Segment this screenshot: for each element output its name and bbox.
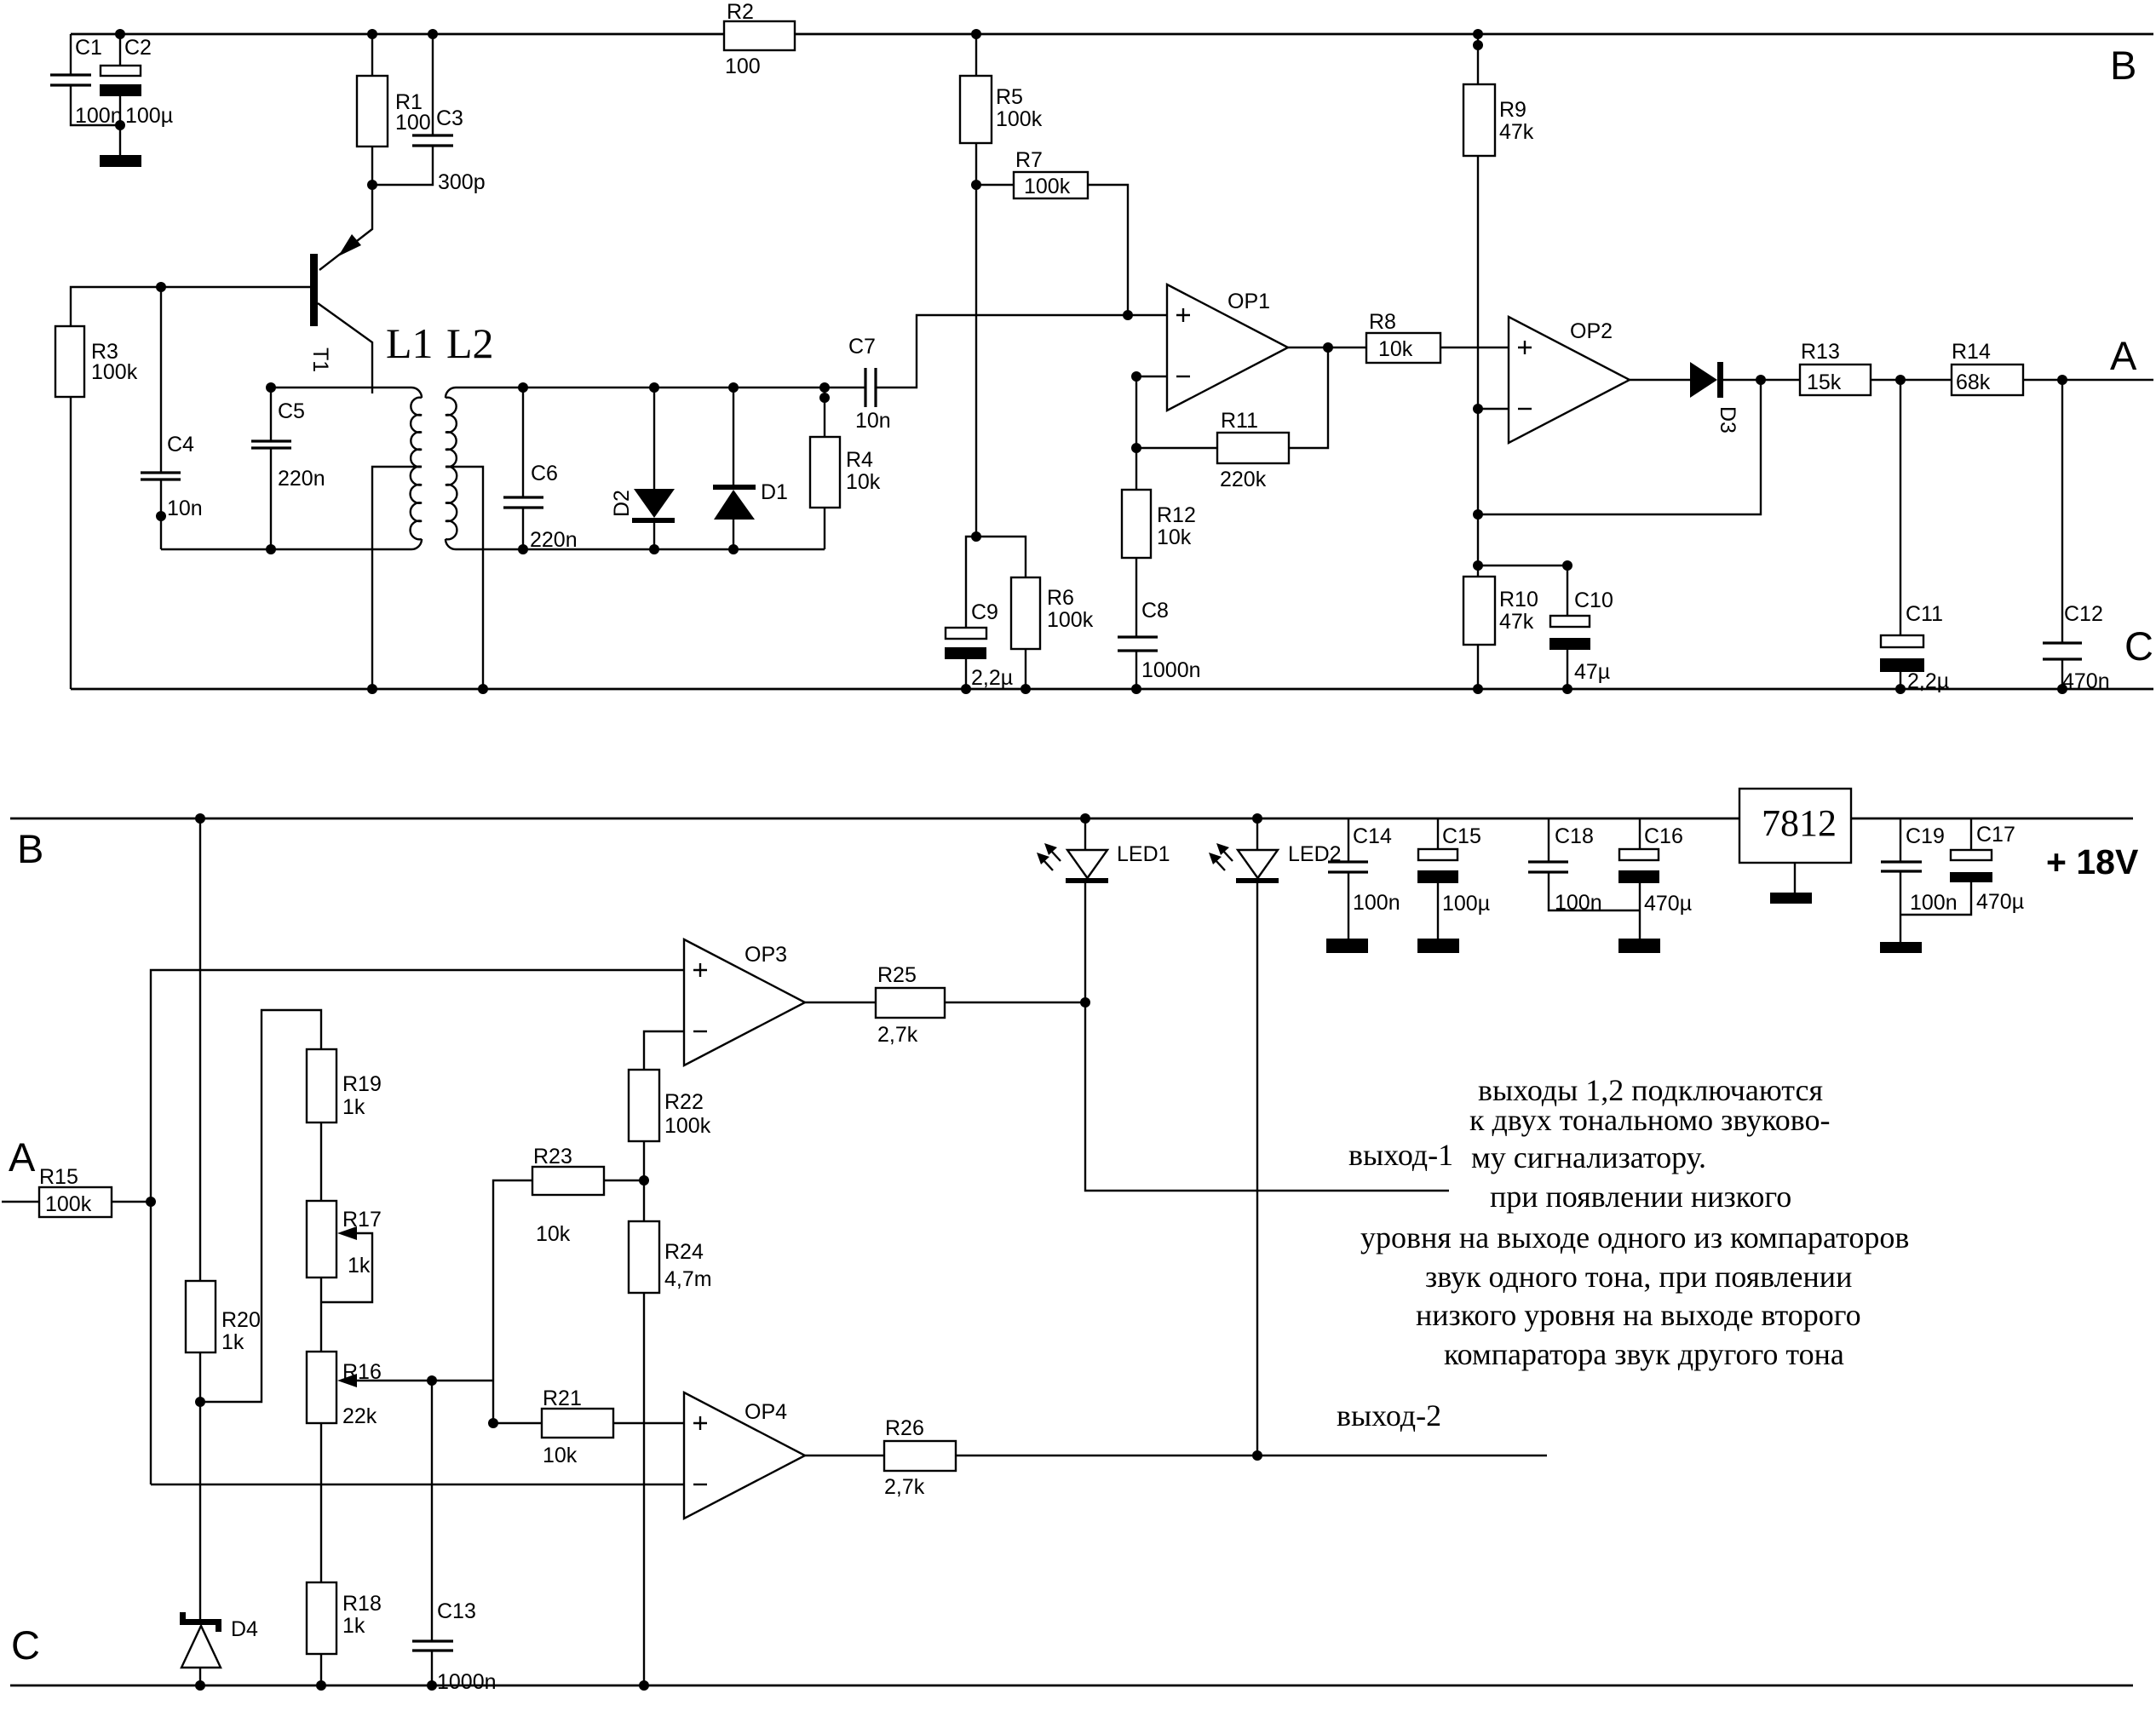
svg-text:A: A	[2110, 333, 2137, 378]
node: R5/R7 junction	[971, 180, 981, 190]
node: C11 junction	[1895, 375, 1906, 385]
wire: top supply rail B	[71, 33, 2153, 36]
svg-text:2,7k: 2,7k	[877, 1023, 918, 1047]
svg-text:10n: 10n	[167, 497, 203, 520]
svg-text:D1: D1	[761, 480, 788, 504]
capacitor C4	[141, 287, 203, 549]
capacitor C11 (electrolytic)	[1880, 380, 1949, 694]
wire: OP2 minus input	[1473, 404, 1509, 566]
svg-text:100k: 100k	[45, 1192, 92, 1216]
wire: base wire to R3	[71, 287, 310, 326]
svg-text:100n: 100n	[1555, 891, 1602, 915]
op-amp OP4	[684, 1392, 805, 1519]
svg-text:68k: 68k	[1956, 370, 1991, 394]
svg-text:R5: R5	[996, 85, 1023, 109]
svg-text:7812: 7812	[1762, 802, 1837, 844]
svg-text:низкого уровня на выходе второ: низкого уровня на выходе второго	[1416, 1298, 1861, 1332]
svg-text:R24: R24	[664, 1240, 704, 1264]
resistor R19	[307, 1049, 382, 1201]
node: R7 / +input junction	[1123, 310, 1133, 320]
svg-text:D3: D3	[1716, 406, 1739, 433]
svg-text:A: A	[9, 1134, 36, 1180]
resistor R20	[186, 818, 261, 1407]
svg-text:10k: 10k	[543, 1444, 578, 1467]
resistor R8	[1366, 310, 1509, 363]
svg-text:C2: C2	[124, 36, 152, 60]
resistor R21	[488, 1387, 684, 1467]
svg-text:R11: R11	[1221, 409, 1258, 433]
svg-text:22k: 22k	[342, 1404, 377, 1428]
wire: OP1 output	[1288, 342, 1366, 448]
resistor R3	[55, 326, 138, 689]
node: R25/LED1 junction	[1080, 997, 1090, 1008]
svg-text:R8: R8	[1369, 310, 1396, 334]
svg-text:100k: 100k	[1047, 608, 1094, 632]
svg-text:R22: R22	[664, 1090, 704, 1114]
svg-text:1k: 1k	[348, 1254, 371, 1278]
resistor R1	[357, 29, 431, 185]
svg-text:выходы 1,2 подключаются: выходы 1,2 подключаются	[1478, 1073, 1823, 1107]
svg-text:B: B	[17, 826, 43, 871]
op-amp OP3	[684, 939, 805, 1065]
svg-text:R18: R18	[342, 1592, 382, 1616]
potentiometer R16	[307, 1352, 493, 1582]
resistor R18	[307, 1582, 382, 1691]
svg-text:100k: 100k	[1024, 175, 1071, 198]
capacitor C19	[1880, 818, 1958, 953]
svg-text:47µ: 47µ	[1574, 660, 1610, 684]
svg-text:100k: 100k	[996, 107, 1043, 131]
diode D3	[1690, 362, 1800, 433]
svg-text:C14: C14	[1353, 824, 1392, 848]
resistor R14	[1952, 340, 2153, 395]
resistor R13	[1800, 340, 1952, 395]
svg-text:R20: R20	[221, 1308, 261, 1332]
capacitor C1	[50, 36, 123, 128]
svg-text:220k: 220k	[1220, 468, 1267, 491]
resistor R7	[976, 148, 1128, 315]
ground below C2	[100, 125, 141, 167]
svg-text:C11: C11	[1906, 602, 1943, 626]
svg-text:C6: C6	[531, 462, 558, 485]
output-2 label	[1337, 1398, 1441, 1433]
svg-text:1000n: 1000n	[1141, 658, 1201, 682]
svg-text:C1: C1	[75, 36, 102, 60]
capacitor C2 (electrolytic)	[100, 29, 173, 130]
svg-text:1000n: 1000n	[437, 1670, 497, 1694]
svg-text:R6: R6	[1047, 586, 1074, 610]
svg-text:100: 100	[395, 111, 431, 135]
annotation text block	[1360, 1073, 1909, 1371]
node: LED2/output-2 junction	[1252, 1450, 1262, 1461]
svg-text:C16: C16	[1644, 824, 1683, 848]
svg-text:C17: C17	[1976, 823, 2015, 847]
inductor L1 (primary winding with centre tap)	[386, 319, 434, 549]
svg-text:300p: 300p	[438, 170, 486, 194]
svg-text:R4: R4	[846, 448, 873, 472]
capacitor C14	[1326, 818, 1400, 953]
zener diode D4	[180, 1402, 258, 1691]
svg-text:C: C	[11, 1622, 40, 1668]
svg-text:+ 18V: + 18V	[2046, 842, 2139, 881]
resistor R11	[1131, 409, 1289, 491]
svg-text:R2: R2	[727, 0, 754, 24]
resistor R25	[805, 963, 1085, 1047]
svg-text:выход-2: выход-2	[1337, 1398, 1441, 1433]
svg-text:R10: R10	[1499, 588, 1538, 611]
wire: LED1 to output-1	[1085, 1002, 1449, 1191]
capacitor C5	[251, 382, 325, 554]
svg-text:R9: R9	[1499, 98, 1526, 122]
svg-text:100k: 100k	[664, 1114, 711, 1138]
wire: R20 bottom link to R19 chain	[200, 1010, 321, 1402]
node A label (left)	[9, 1134, 36, 1180]
svg-text:R12: R12	[1157, 503, 1196, 527]
LED2	[1209, 813, 1342, 1455]
node: R1/C3 junction	[367, 180, 377, 190]
svg-text:10n: 10n	[855, 409, 891, 433]
wire: tank bottom left segment	[161, 548, 411, 550]
diode D1 (reversed)	[713, 382, 788, 554]
wire: left drop from rail to C1	[70, 34, 72, 75]
svg-text:1k: 1k	[342, 1095, 365, 1119]
svg-text:100n: 100n	[1910, 891, 1958, 915]
svg-text:R21: R21	[543, 1387, 582, 1410]
resistor R5	[960, 29, 1043, 537]
svg-text:компаратора звук другого тона: компаратора звук другого тона	[1444, 1337, 1844, 1371]
svg-text:1k: 1k	[342, 1614, 365, 1638]
wire: L1 centre tap to bottom rail	[367, 467, 422, 694]
svg-text:C3: C3	[436, 106, 463, 130]
svg-text:10k: 10k	[536, 1222, 571, 1246]
svg-text:220n: 220n	[530, 528, 578, 552]
svg-text:звук одного тона, при появлени: звук одного тона, при появлении	[1425, 1260, 1852, 1294]
capacitor C17 (electrolytic)	[1900, 818, 2024, 915]
svg-text:OP4: OP4	[745, 1400, 787, 1424]
svg-text:15k: 15k	[1807, 370, 1842, 394]
capacitor C13	[412, 1381, 497, 1694]
wire: bottom rail	[10, 1685, 2133, 1687]
wire: A node vertical with comparator taps	[151, 970, 684, 1484]
svg-text:R23: R23	[533, 1145, 572, 1168]
svg-text:2,7k: 2,7k	[884, 1475, 925, 1499]
svg-text:C8: C8	[1141, 599, 1169, 623]
resistor R26	[805, 1416, 1547, 1499]
wire: B rail (bottom section)	[10, 818, 2133, 820]
svg-text:C18: C18	[1555, 824, 1594, 848]
svg-text:C9: C9	[971, 600, 998, 624]
wire: tank bottom right segment	[456, 548, 825, 550]
node: base/C4 junction	[156, 282, 166, 292]
wire: R23 branch vertical	[493, 1180, 532, 1423]
capacitor C18	[1528, 818, 1640, 915]
capacitor C15 (electrolytic)	[1417, 818, 1490, 953]
svg-text:B: B	[2110, 43, 2136, 88]
svg-text:C5: C5	[278, 399, 305, 423]
svg-text:му сигнализатору.: му сигнализатору.	[1471, 1140, 1706, 1174]
svg-text:R25: R25	[877, 963, 917, 987]
svg-text:470µ: 470µ	[1644, 892, 1692, 916]
wire: top wire C6 to C7	[523, 387, 865, 388]
svg-text:10k: 10k	[1378, 337, 1413, 361]
svg-text:R16: R16	[342, 1360, 382, 1384]
node: C9/R6 junction	[971, 531, 981, 542]
op-amp OP2	[1509, 317, 1630, 443]
resistor R6	[976, 537, 1094, 694]
svg-text:C13: C13	[437, 1599, 476, 1623]
potentiometer R17	[307, 1201, 382, 1352]
node: R20 drop	[195, 813, 205, 824]
wire: OP4 minus wire	[151, 1484, 684, 1485]
resistor R24	[629, 1180, 712, 1691]
node: R10/C10 junction	[1473, 560, 1483, 571]
svg-text:T1: T1	[308, 347, 332, 372]
svg-text:C12: C12	[2064, 602, 2103, 626]
svg-text:47k: 47k	[1499, 610, 1534, 634]
svg-text:10k: 10k	[1157, 525, 1192, 549]
svg-text:220n: 220n	[278, 467, 325, 491]
svg-text:100k: 100k	[91, 360, 138, 384]
node C label	[2124, 623, 2153, 669]
svg-text:R13: R13	[1801, 340, 1840, 364]
capacitor C6	[503, 382, 578, 554]
capacitor C12	[2043, 380, 2110, 694]
svg-text:C: C	[2124, 623, 2153, 669]
svg-text:C7: C7	[848, 335, 876, 359]
LED1	[1037, 813, 1170, 1002]
svg-text:к двух тональномо звуково-: к двух тональномо звуково-	[1469, 1103, 1831, 1137]
svg-text:L2: L2	[446, 319, 494, 367]
svg-text:2,2µ: 2,2µ	[971, 666, 1013, 690]
svg-text:470µ: 470µ	[1976, 890, 2024, 914]
+18V label	[2046, 842, 2139, 881]
node C label (bottom left)	[11, 1622, 40, 1668]
svg-text:OP3: OP3	[745, 943, 787, 967]
output-1 label	[1348, 1138, 1453, 1172]
resistor R2	[724, 0, 795, 78]
svg-text:4,7m: 4,7m	[664, 1267, 712, 1291]
wire: feedback from D3 output	[1478, 380, 1761, 514]
node B label (bottom left)	[17, 826, 43, 871]
svg-text:при появлении низкого: при появлении низкого	[1490, 1180, 1791, 1214]
node A label	[2110, 333, 2137, 378]
svg-text:R26: R26	[885, 1416, 924, 1440]
svg-text:R19: R19	[342, 1072, 382, 1096]
svg-text:10k: 10k	[846, 470, 881, 494]
svg-text:100µ: 100µ	[1442, 892, 1490, 916]
svg-text:100µ: 100µ	[125, 104, 173, 128]
transistor T1	[308, 185, 372, 393]
svg-text:1k: 1k	[221, 1330, 244, 1354]
resistor R15	[2, 1165, 151, 1217]
resistor R12	[1122, 448, 1196, 637]
svg-text:100n: 100n	[1353, 891, 1400, 915]
inductor L2 (secondary winding with centre tap)	[446, 319, 523, 549]
capacitor C9 (electrolytic)	[945, 537, 1013, 694]
svg-text:D2: D2	[610, 490, 634, 517]
wire: bottom rail of top section (node C)	[71, 688, 2153, 691]
capacitor C7	[848, 315, 1167, 433]
svg-text:C4: C4	[167, 433, 194, 456]
wire: OP1 minus input	[1131, 371, 1167, 448]
node B label (top right)	[2110, 43, 2136, 88]
svg-text:L1: L1	[386, 319, 434, 367]
node: feedback junction	[1473, 509, 1483, 520]
svg-text:OP2: OP2	[1570, 319, 1613, 343]
svg-text:R7: R7	[1015, 148, 1043, 172]
wire: OP2 output	[1630, 379, 1690, 381]
wire: L2 centre tap to bottom rail	[446, 467, 488, 694]
node: C12 junction	[2057, 375, 2067, 385]
svg-text:R14: R14	[1952, 340, 1991, 364]
resistor R4	[810, 382, 881, 549]
resistor R22	[629, 1031, 711, 1180]
svg-text:100: 100	[725, 55, 761, 78]
wire: tank top wire	[271, 387, 411, 388]
svg-text:OP1: OP1	[1227, 290, 1270, 313]
resistor R23	[532, 1145, 649, 1246]
svg-text:уровня на выходе одного из ком: уровня на выходе одного из компараторов	[1360, 1220, 1909, 1255]
svg-text:D4: D4	[231, 1617, 258, 1641]
node: A vertical / R15 junction	[146, 1197, 156, 1207]
svg-text:C10: C10	[1574, 589, 1613, 612]
capacitor C3	[372, 29, 486, 194]
svg-text:C15: C15	[1442, 824, 1481, 848]
op-amp OP1	[1167, 284, 1288, 411]
voltage regulator 7812	[1739, 789, 1851, 904]
svg-text:выход-1: выход-1	[1348, 1138, 1453, 1172]
svg-text:C19: C19	[1906, 824, 1945, 848]
capacitor C16 (electrolytic)	[1618, 818, 1692, 953]
svg-text:47k: 47k	[1499, 120, 1534, 144]
node: rail drop at R9 (double dot)	[1473, 29, 1483, 84]
resistor R10	[1463, 566, 1538, 694]
capacitor C10 (electrolytic)	[1478, 560, 1613, 694]
svg-text:R15: R15	[39, 1165, 78, 1189]
svg-text:LED1: LED1	[1117, 842, 1170, 866]
diode D2	[610, 382, 675, 554]
capacitor C8	[1118, 599, 1201, 694]
svg-text:R17: R17	[342, 1208, 382, 1232]
resistor R9	[1463, 84, 1534, 409]
